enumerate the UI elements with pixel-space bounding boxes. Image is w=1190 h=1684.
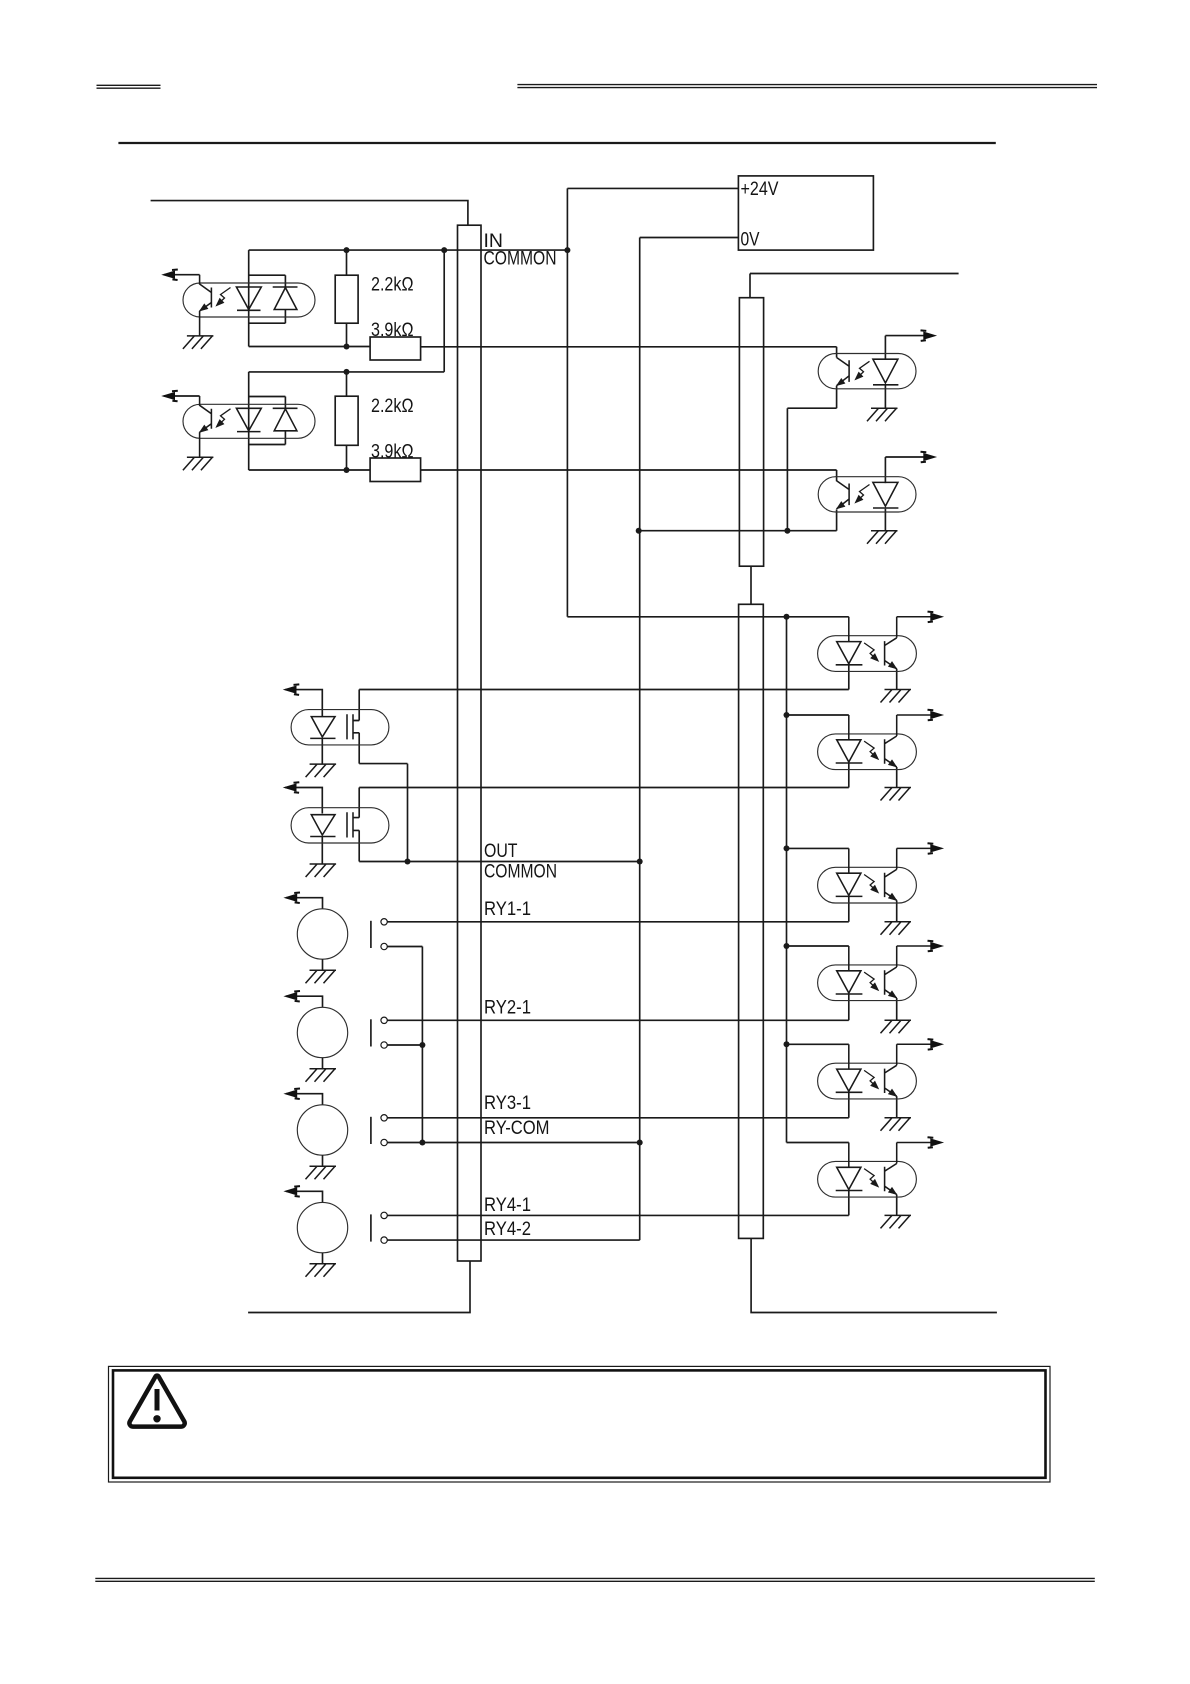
svg-text:2.2kΩ: 2.2kΩ <box>371 275 414 296</box>
svg-text:RY3-1: RY3-1 <box>484 1093 531 1114</box>
svg-text:RY-COM: RY-COM <box>484 1118 550 1139</box>
svg-text:2.2kΩ: 2.2kΩ <box>371 396 414 417</box>
svg-text:RY4-1: RY4-1 <box>484 1195 531 1216</box>
svg-text:0V: 0V <box>741 230 760 251</box>
svg-text:3.9kΩ: 3.9kΩ <box>371 320 414 341</box>
svg-text:RY1-1: RY1-1 <box>484 899 531 920</box>
svg-text:3.9kΩ: 3.9kΩ <box>371 441 414 462</box>
svg-text:+24V: +24V <box>741 179 779 200</box>
svg-text:RY4-2: RY4-2 <box>484 1219 531 1240</box>
svg-text:OUT: OUT <box>484 841 518 862</box>
svg-text:COMMON: COMMON <box>484 249 557 270</box>
svg-text:COMMON: COMMON <box>484 862 557 883</box>
svg-text:RY2-1: RY2-1 <box>484 998 531 1019</box>
